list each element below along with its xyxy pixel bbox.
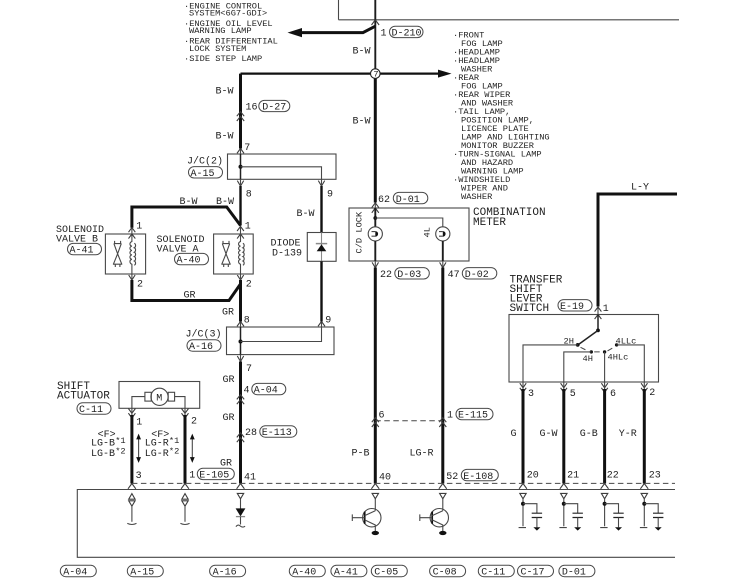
svg-text:B-W: B-W xyxy=(353,47,371,58)
wire 4HLc to pin6 xyxy=(604,352,606,382)
svg-text:2: 2 xyxy=(191,417,197,428)
wire horizontal trunk at y73.6 xyxy=(241,72,439,74)
svg-text:LG-R: LG-R xyxy=(145,439,169,450)
svg-text:1: 1 xyxy=(447,411,453,422)
svg-text:4: 4 xyxy=(244,386,250,397)
SECTION: ecu xyxy=(77,483,675,557)
wire G-W pin5 to ECU21 xyxy=(563,382,565,389)
wire to capacitor xyxy=(523,504,537,513)
ground xyxy=(533,527,540,530)
svg-text:A-16: A-16 xyxy=(213,568,237,579)
wire 2H to pin3 xyxy=(523,345,578,382)
svg-text:C-17: C-17 xyxy=(521,568,545,579)
svg-text:*1: *1 xyxy=(115,436,125,446)
pin mark xyxy=(561,493,567,498)
svg-text:23: 23 xyxy=(649,470,661,481)
svg-text:D-27: D-27 xyxy=(262,103,286,114)
wire to capacitor xyxy=(644,504,658,513)
wire stub xyxy=(600,499,607,528)
solenoid valve A box xyxy=(214,234,254,274)
pin 8 chevron xyxy=(237,181,243,186)
GR trunk down to J/C(3) xyxy=(240,274,242,280)
wire xyxy=(657,518,659,528)
meter internal wiring xyxy=(374,208,376,227)
ground xyxy=(615,527,622,530)
svg-text:A-15: A-15 xyxy=(130,568,154,579)
svg-text:J/C(3): J/C(3) xyxy=(186,329,222,341)
svg-text:D-210: D-210 xyxy=(392,29,422,40)
wire pin8 down to valve A pin1 xyxy=(240,179,242,186)
A-16 ref oval xyxy=(187,340,221,351)
wire 4LLc to pin2 xyxy=(617,345,645,382)
pin 22 chevron xyxy=(372,262,378,267)
svg-text:1: 1 xyxy=(381,29,387,40)
SECTION: right lamp list xyxy=(453,30,550,202)
connector ref A-16 xyxy=(210,565,246,576)
svg-text:21: 21 xyxy=(567,470,579,481)
pin mark xyxy=(601,493,607,498)
svg-text:41: 41 xyxy=(244,473,256,484)
wire to capacitor xyxy=(564,504,578,513)
wire stub xyxy=(559,499,566,528)
connector ref A-40 xyxy=(289,565,325,576)
svg-text:*2: *2 xyxy=(169,446,179,456)
lamp C/D LOCK xyxy=(368,227,382,241)
solenoid valve B box xyxy=(105,234,145,274)
svg-text:A-40: A-40 xyxy=(292,568,316,579)
svg-text:A-04: A-04 xyxy=(63,568,87,579)
pin 1 valve A mark xyxy=(237,226,244,238)
pin 2 mark (X at bottom edge) xyxy=(182,409,189,419)
valve B pin2 chevron xyxy=(129,275,135,280)
svg-text:7: 7 xyxy=(246,364,252,375)
connector ref C-08 xyxy=(430,565,466,576)
SECTION: meter xyxy=(349,192,546,281)
pin 47 chevron xyxy=(440,262,446,267)
junction xyxy=(562,502,566,506)
E-19 ref oval xyxy=(558,300,592,311)
connector ref C-17 xyxy=(518,565,554,576)
SECTION: top-left text list xyxy=(184,1,278,64)
C-11 ref oval xyxy=(77,403,111,414)
ECU pin 40 transistor Q1 xyxy=(372,493,378,498)
wire LG-R pin2 to ECU pin1 xyxy=(184,408,186,415)
ECU pin 23 capacitor unit xyxy=(640,493,664,530)
wire LG-B pin1 to ECU pin3 xyxy=(131,408,133,415)
junction xyxy=(642,502,646,506)
wire G pin3 to ECU20 xyxy=(522,382,524,389)
L-Y feed wire xyxy=(598,194,677,307)
svg-text:6: 6 xyxy=(610,389,616,400)
chevrons at E-113 xyxy=(237,433,244,442)
J/C(3) internal bus xyxy=(240,327,242,355)
svg-text:A-41: A-41 xyxy=(334,568,358,579)
svg-text:A-16: A-16 xyxy=(189,342,213,353)
svg-text:3: 3 xyxy=(528,389,534,400)
motor leads xyxy=(132,397,185,409)
capacitor C3 xyxy=(613,513,623,517)
svg-text:1: 1 xyxy=(136,222,142,233)
svg-text:A-15: A-15 xyxy=(191,169,215,180)
pin 1 D-210 (X mark) xyxy=(372,20,380,25)
contact 4LLc xyxy=(615,343,618,346)
switch box xyxy=(509,315,659,383)
junction connector J/C(3) box xyxy=(227,327,335,355)
svg-text:4L: 4L xyxy=(423,227,433,237)
pin 5 chevrons xyxy=(561,383,567,392)
wire pin9 down to diode xyxy=(321,179,323,186)
pin 7 mark (X at top edge) xyxy=(237,149,244,154)
svg-text:C-05: C-05 xyxy=(374,568,398,579)
motor M xyxy=(151,388,168,405)
svg-text:47: 47 xyxy=(448,270,460,281)
shift actuator box xyxy=(119,382,200,409)
wire B-W vertical from top into node xyxy=(374,0,376,74)
svg-text:GR: GR xyxy=(184,291,196,302)
svg-text:SWITCH: SWITCH xyxy=(510,303,550,315)
svg-text:3: 3 xyxy=(136,471,142,482)
svg-text:4H: 4H xyxy=(583,354,593,364)
svg-text:C/D LOCK: C/D LOCK xyxy=(355,211,365,253)
ECU pin 3 (actuator) triangles and stub xyxy=(129,494,135,507)
wire G-B pin6 to ECU22 xyxy=(604,382,606,389)
node 7 (circled junction) xyxy=(371,69,381,79)
thick B-W branch to valve B xyxy=(132,207,241,228)
valve A hourglass symbol xyxy=(221,241,230,267)
connector ref A-15 xyxy=(127,565,163,576)
harness boundary dashed line xyxy=(132,482,675,484)
arrow to engine systems (thick, left) xyxy=(299,26,375,32)
svg-text:E-115: E-115 xyxy=(458,411,488,422)
top partial box (connector D-210 block) xyxy=(339,0,680,20)
chevrons at E-115 on P-B xyxy=(372,418,379,427)
svg-text:9: 9 xyxy=(327,189,333,200)
SECTION: valves xyxy=(56,222,253,327)
svg-text:WASHER: WASHER xyxy=(461,192,492,202)
wire to capacitor xyxy=(605,504,619,513)
svg-text:D-02: D-02 xyxy=(465,270,489,281)
pin 9 mark (X at top edge) xyxy=(318,322,325,327)
svg-text:A-41: A-41 xyxy=(70,246,94,257)
SECTION: actuator xyxy=(57,381,234,483)
svg-text:GR: GR xyxy=(223,375,235,386)
svg-text:1: 1 xyxy=(189,470,195,481)
svg-text:*2: *2 xyxy=(115,446,125,456)
valve B coil xyxy=(130,234,132,274)
svg-text:LG-R: LG-R xyxy=(145,449,169,460)
svg-text:D-139: D-139 xyxy=(272,248,302,259)
SECTION: bottom ovals xyxy=(60,565,595,578)
valve A coil xyxy=(239,234,241,274)
svg-text:62: 62 xyxy=(378,195,390,206)
wire B-W node7 down to meter xyxy=(374,74,377,203)
ECU box (no right edge) xyxy=(77,490,675,558)
ECU pin 22 capacitor unit xyxy=(600,493,624,530)
svg-text:B-W: B-W xyxy=(353,117,371,128)
svg-text:9: 9 xyxy=(325,315,331,326)
svg-text:40: 40 xyxy=(379,472,391,483)
svg-text:1: 1 xyxy=(245,221,251,232)
connector ref C-11 xyxy=(478,565,514,576)
up-down arrow 2 xyxy=(191,438,193,459)
junction xyxy=(603,502,607,506)
svg-text:B-W: B-W xyxy=(297,209,315,220)
svg-text:7: 7 xyxy=(244,143,250,154)
svg-text:LG-R: LG-R xyxy=(410,448,434,459)
switch common wire xyxy=(597,315,599,331)
wire xyxy=(536,518,538,528)
pin 2 chevrons xyxy=(641,383,647,392)
connector ref C-05 xyxy=(371,565,407,576)
pin 9 chevron xyxy=(318,181,324,186)
svg-text:52: 52 xyxy=(446,472,458,483)
svg-text:A-04: A-04 xyxy=(254,386,278,397)
svg-text:GR: GR xyxy=(222,308,234,319)
valve B pin1 chevron xyxy=(129,228,136,239)
svg-text:7: 7 xyxy=(373,69,378,79)
svg-text:2: 2 xyxy=(137,280,143,291)
svg-text:22: 22 xyxy=(607,470,619,481)
svg-text:E-105: E-105 xyxy=(199,470,229,481)
svg-text:G-W: G-W xyxy=(540,429,558,440)
svg-text:A-40: A-40 xyxy=(177,256,201,267)
svg-text:P-B: P-B xyxy=(352,448,370,459)
A-15 ref oval xyxy=(189,167,223,178)
valve A pin2 chevron xyxy=(237,275,243,280)
svg-text:28: 28 xyxy=(245,428,257,439)
X marks where wires cross dashed line xyxy=(128,484,136,489)
svg-text:C-11: C-11 xyxy=(481,568,505,579)
pin 8 mark (X at top edge) xyxy=(237,322,244,327)
svg-text:D-01: D-01 xyxy=(562,568,586,579)
ECU pin 41 input diode xyxy=(237,493,243,498)
arrow to lamp systems (right) xyxy=(438,70,452,78)
svg-text:M: M xyxy=(156,394,162,405)
svg-text:D-03: D-03 xyxy=(397,270,421,281)
in-line connector chevrons D-27 xyxy=(237,112,244,121)
svg-text:4HLc: 4HLc xyxy=(608,352,629,362)
pin 1 mark (X at bottom edge) xyxy=(128,409,135,419)
svg-text:22: 22 xyxy=(380,270,392,281)
ECU pin 20 capacitor unit xyxy=(519,493,543,530)
A-41 ref oval xyxy=(68,243,102,254)
chevrons at A-04 xyxy=(237,395,244,404)
wire stub xyxy=(640,499,647,528)
pin 7 chevron below xyxy=(237,356,243,361)
pin 3 chevrons xyxy=(520,383,526,392)
capacitor C1 xyxy=(532,513,542,517)
lamp 4L xyxy=(436,227,450,241)
svg-text:LG-B: LG-B xyxy=(91,449,115,460)
svg-text:GR: GR xyxy=(223,413,235,424)
svg-text:B-W: B-W xyxy=(216,132,234,143)
SECTION: top box and node7 xyxy=(216,0,680,208)
SECTION: JC2 xyxy=(132,143,336,239)
A-40 ref oval xyxy=(175,253,209,264)
contact 4H xyxy=(590,350,593,353)
pin mark xyxy=(641,493,647,498)
svg-text:8: 8 xyxy=(246,189,252,200)
svg-text:WARNING LAMP: WARNING LAMP xyxy=(189,26,252,36)
thick GR branch valve B pin2 to valve A pin2 xyxy=(131,274,133,280)
pin mark xyxy=(520,493,526,498)
svg-text:METER: METER xyxy=(473,217,506,229)
svg-text:2: 2 xyxy=(246,280,252,291)
wire P-B meter pin22 to ECU pin40 xyxy=(374,261,376,268)
svg-text:LOCK SYSTEM: LOCK SYSTEM xyxy=(189,44,246,54)
svg-text:8: 8 xyxy=(244,315,250,326)
svg-text:E-19: E-19 xyxy=(560,302,584,313)
up-down arrow 1 xyxy=(138,438,140,459)
connector ref D-210 xyxy=(390,26,424,37)
svg-text:5: 5 xyxy=(570,389,576,400)
svg-text:G: G xyxy=(511,429,517,440)
svg-text:LG-B: LG-B xyxy=(91,439,115,450)
connector ref A-04 xyxy=(60,565,96,576)
capacitor C2 xyxy=(573,513,583,517)
connector ref D-01 xyxy=(559,565,595,576)
SECTION: diode xyxy=(271,233,337,328)
pin 1 chevrons xyxy=(595,307,602,319)
svg-text:E-108: E-108 xyxy=(463,472,493,483)
switch arm to 2H xyxy=(579,330,599,344)
svg-text:VALVE B: VALVE B xyxy=(56,235,98,246)
wire corner down at x240.5 xyxy=(239,74,242,149)
pin 62 mark (X at top edge) xyxy=(372,203,379,213)
ECU pin 1 (actuator) triangles and stub xyxy=(182,494,188,507)
wire 4H to pin5 xyxy=(564,352,592,382)
wire Y-R pin2 to ECU23 xyxy=(643,382,645,389)
svg-text:B-W: B-W xyxy=(216,87,234,98)
J/C(2) internal bus xyxy=(240,154,242,179)
connector ref A-41 xyxy=(331,565,367,576)
ground xyxy=(574,527,581,530)
brush blocks xyxy=(145,392,151,401)
svg-text:16: 16 xyxy=(246,103,258,114)
diode symbol (pointing up) xyxy=(317,244,327,251)
svg-text:L-Y: L-Y xyxy=(631,182,649,193)
diode internal wire xyxy=(321,233,323,262)
svg-text:2: 2 xyxy=(649,388,655,399)
chevrons at E-115 on LG-R xyxy=(439,418,446,427)
SECTION: switch xyxy=(509,182,677,483)
svg-text:6: 6 xyxy=(379,411,385,422)
wire LG-R meter pin47 to ECU pin52 xyxy=(442,261,444,268)
svg-text:C-08: C-08 xyxy=(433,568,457,579)
SECTION: midwires xyxy=(352,261,499,484)
contact 4HLc xyxy=(603,350,606,353)
wire stub xyxy=(519,499,526,528)
capacitor C4 xyxy=(653,513,663,517)
svg-text:*1: *1 xyxy=(169,436,179,446)
svg-text:·SIDE STEP LAMP: ·SIDE STEP LAMP xyxy=(184,54,262,64)
valve B hourglass symbol xyxy=(113,241,122,267)
svg-text:J/C(2): J/C(2) xyxy=(187,155,223,167)
wire xyxy=(618,518,620,528)
svg-text:1: 1 xyxy=(603,304,609,315)
ground xyxy=(655,527,662,530)
ECU pin 21 capacitor unit xyxy=(559,493,583,530)
GR trunk down to ECU pin 41 xyxy=(240,355,242,362)
svg-text:E-113: E-113 xyxy=(262,428,292,439)
dashed contact path xyxy=(581,347,615,352)
lamp outputs to box bottom xyxy=(375,241,443,261)
ECU pin 52 transistor Q2 xyxy=(440,493,446,498)
svg-text:C-11: C-11 xyxy=(79,405,103,416)
wire diode to J/C(3) pin9 xyxy=(320,261,322,321)
pin 6 chevrons xyxy=(601,383,607,392)
SECTION: JC3 xyxy=(186,315,335,483)
junction connector J/C(2) box xyxy=(228,154,337,179)
svg-text:Y-R: Y-R xyxy=(619,429,637,440)
svg-text:SYSTEM<6G7-GDI>: SYSTEM<6G7-GDI> xyxy=(189,9,267,19)
svg-text:G-B: G-B xyxy=(580,429,598,440)
connector E-115 dashed line xyxy=(375,420,443,422)
junction xyxy=(521,502,525,506)
diode box xyxy=(307,233,336,262)
svg-text:1: 1 xyxy=(136,418,142,429)
svg-text:ACTUATOR: ACTUATOR xyxy=(57,391,110,403)
wire xyxy=(577,518,579,528)
svg-text:D-01: D-01 xyxy=(396,195,420,206)
svg-text:20: 20 xyxy=(527,470,539,481)
combination meter box xyxy=(349,208,469,261)
